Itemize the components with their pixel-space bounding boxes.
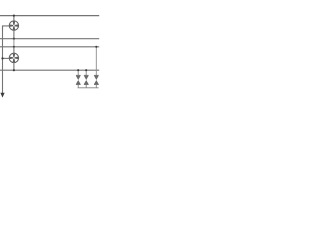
wire from bus 1 down to converter G1	[13, 16, 15, 21]
wire link bus 2 to bus 3	[13, 39, 15, 47]
node junction G2/bus4	[13, 69, 15, 71]
node junction bus4/F1	[77, 69, 79, 71]
arrester F2 (back-to-back diodes)	[84, 75, 89, 85]
wire G1 bottom to bus 2	[13, 30, 15, 39]
wire from bus 3 down to converter G2	[13, 47, 15, 54]
arrester F3 (back-to-back diodes)	[94, 75, 99, 85]
wire drop bus4 to arrester F1	[77, 70, 79, 75]
node junction bus3	[13, 46, 15, 48]
node junction bus3/F3	[95, 46, 97, 48]
node junction G1/bus2	[13, 38, 15, 40]
node junction bus4/F2	[85, 69, 87, 71]
wire drop bus3 to arrester F3 (crosses bus 4)	[95, 47, 97, 75]
arrow feeder outgoing (down arrow)	[0, 93, 4, 98]
wire bus 1 (top horizontal bus)	[0, 15, 99, 17]
wire left feeder vertical	[2, 26, 4, 94]
arrester F1 (back-to-back diodes)	[76, 75, 81, 85]
background	[0, 0, 100, 100]
wire G1 left tap to feeder	[3, 26, 10, 30]
node junction bus1/G1	[13, 15, 15, 17]
wire bus 4 (fourth horizontal bus)	[0, 69, 99, 71]
converter G1 (circle with four-petal cross)	[9, 21, 18, 30]
wire G2 left tap	[3, 57, 10, 59]
wire drop bus4 to arrester F2	[85, 70, 87, 75]
wire G2 bottom to bus 4	[13, 63, 15, 71]
wire arrester tie line (bottom)	[78, 87, 99, 89]
wire bus 3 (third horizontal bus)	[0, 46, 99, 48]
converter G2 (circle with four-petal cross)	[9, 53, 18, 62]
wire bus 2 (second horizontal bus)	[0, 38, 99, 40]
wire F1 bottom stub	[77, 85, 79, 88]
node junction feeder/G2 tap	[1, 57, 3, 59]
wire F2 bottom stub	[85, 85, 87, 88]
wire F3 bottom stub	[95, 85, 97, 88]
